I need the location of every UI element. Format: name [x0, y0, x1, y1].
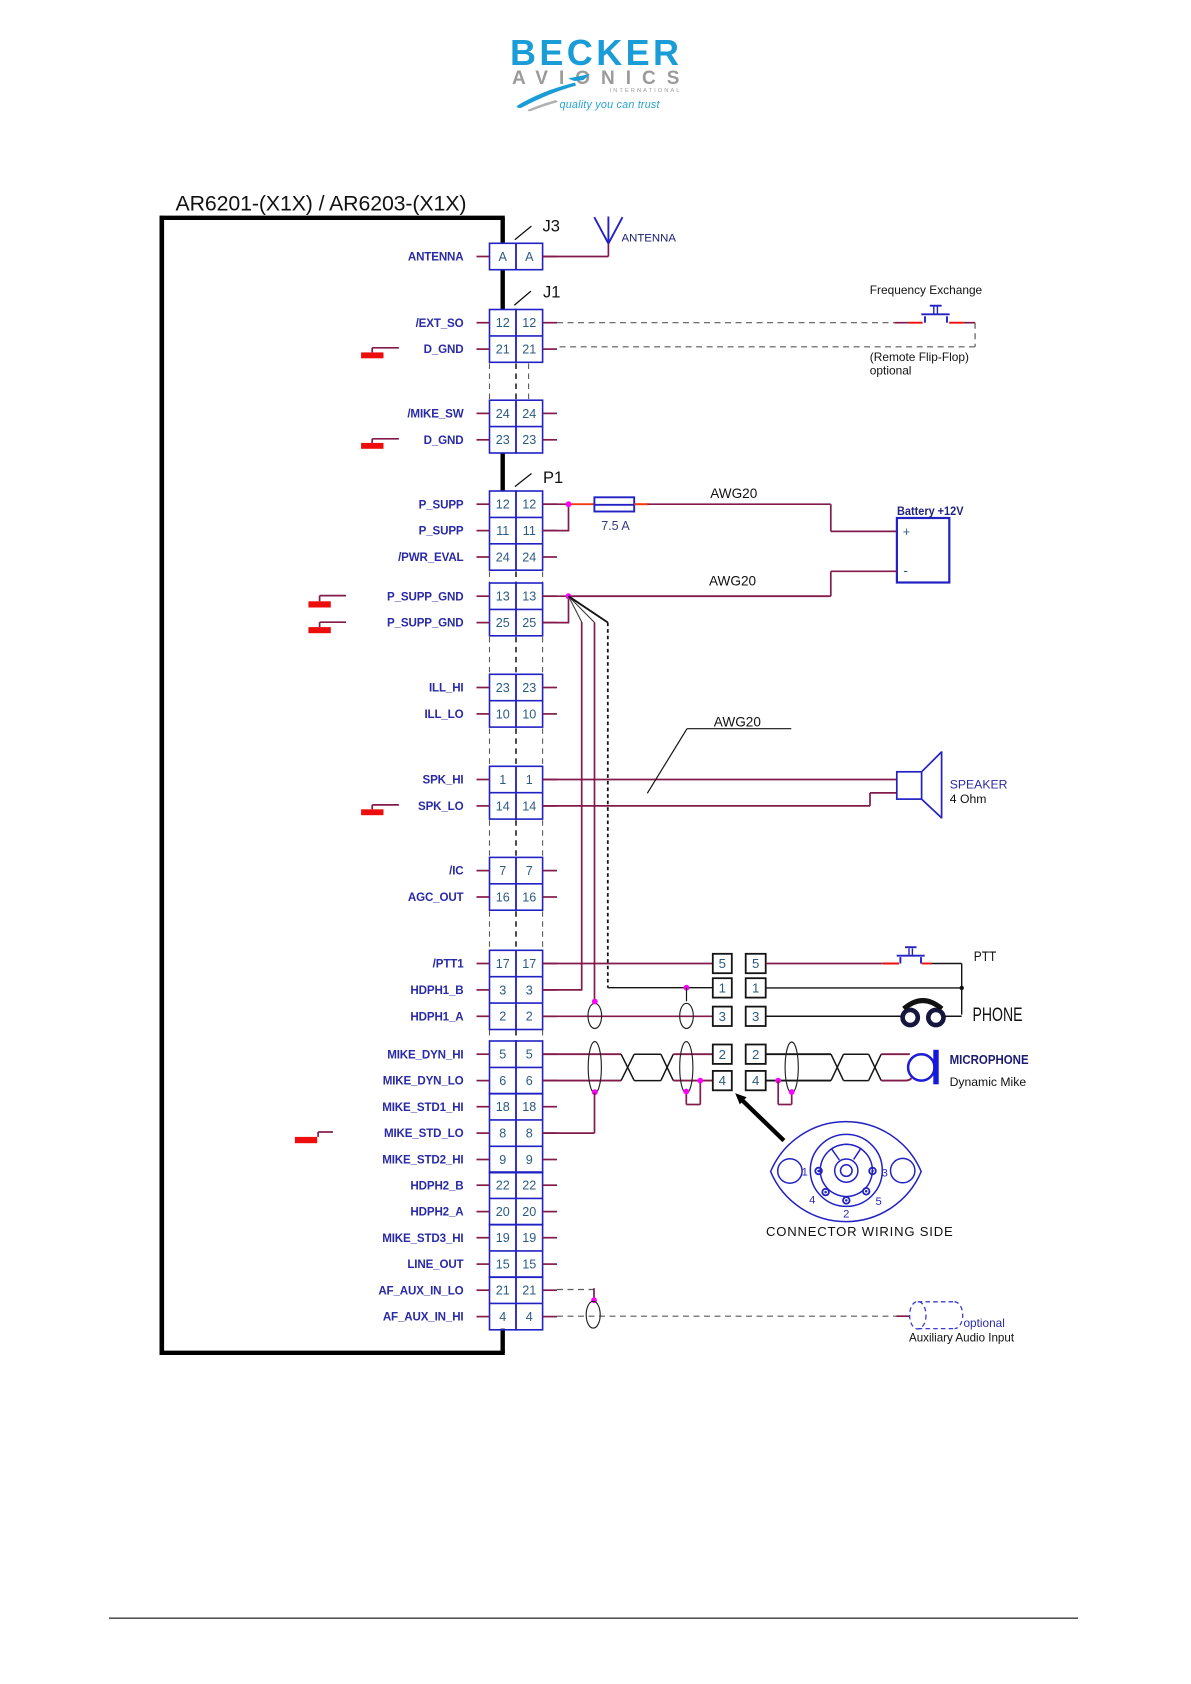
SPEAKER label: [950, 778, 1008, 806]
svg-text:AWG20: AWG20: [709, 573, 757, 588]
svg-text:BECKER: BECKER: [510, 32, 682, 73]
svg-text:6: 6: [499, 1074, 506, 1088]
svg-text:16: 16: [522, 890, 536, 904]
svg-text:AWG20: AWG20: [714, 714, 762, 729]
connector J3 pin box (A): [490, 243, 543, 269]
wire: mike pair low side (black): [766, 1054, 912, 1080]
svg-text:3: 3: [882, 1168, 888, 1180]
wire: mike pair squares to mike (black): [766, 1054, 910, 1080]
svg-text:4: 4: [499, 1310, 506, 1324]
device boundary thick segments at connector column: [501, 218, 505, 1353]
mike cable shield ellipse (mike side): [680, 1042, 693, 1094]
device outline box (thick): [160, 216, 505, 1355]
svg-text:AF_AUX_IN_LO: AF_AUX_IN_LO: [378, 1284, 463, 1297]
inline connector squares 4/4 (MIKE_DYN_LO): [713, 1071, 766, 1090]
svg-text:24: 24: [522, 407, 536, 421]
svg-text:P_SUPP: P_SUPP: [419, 525, 464, 538]
connector P1i pin box (22/20): [490, 1172, 543, 1225]
ground symbol SPK_LO: [361, 805, 399, 815]
svg-text:13: 13: [522, 590, 536, 604]
svg-text:5: 5: [499, 1048, 506, 1062]
wire: square 3 to phone: [766, 1015, 904, 1017]
svg-text:(Remote Flip-Flop): (Remote Flip-Flop): [870, 350, 969, 364]
svg-text:21: 21: [496, 343, 510, 357]
connector P1k pin box (21/4): [490, 1277, 543, 1330]
svg-text:ILL_HI: ILL_HI: [429, 682, 464, 695]
signal label and pin stubs: MIKE_STD_LO (row y 1133): [384, 1127, 557, 1140]
svg-text:MIKE_STD1_HI: MIKE_STD1_HI: [382, 1101, 463, 1114]
Frequency Exchange label: [870, 283, 983, 297]
signal label and pin stubs: ILL_HI (row y 688): [429, 682, 557, 695]
fuse value label 7.5 A: [601, 519, 630, 533]
node: ground wire to HDPH1 shield: [592, 999, 598, 1005]
svg-text:11: 11: [523, 524, 536, 538]
svg-text:9: 9: [526, 1153, 533, 1167]
connector P1j pin box (19/15): [490, 1225, 543, 1278]
svg-text:21: 21: [496, 1284, 510, 1298]
signal label and pin stubs: /MIKE_SW (row y 413): [407, 408, 557, 421]
svg-text:5: 5: [526, 1048, 533, 1062]
signal label and pin stubs: MIKE_STD2_HI (row y 1160): [382, 1154, 557, 1167]
arrow leader to connector drawing: [735, 1093, 784, 1140]
wire: HDPH1_A to square 3: [543, 1015, 713, 1017]
svg-text:25: 25: [496, 616, 510, 630]
connector P1c pin box (23/10): [490, 674, 543, 727]
shield-to-LO hook (right): [778, 1081, 794, 1105]
ground symbol D_GND (J1 pin23): [361, 439, 399, 449]
svg-text:2: 2: [499, 1010, 506, 1024]
svg-text:2: 2: [752, 1047, 759, 1062]
fuse 7.5A: [594, 497, 634, 511]
ground symbol D_GND (J1 pin21): [361, 348, 399, 359]
connector J1a pin box (12/21): [490, 310, 543, 363]
AWG20 label with leader (speaker wires): [647, 714, 791, 793]
svg-text:18: 18: [496, 1100, 510, 1114]
signal label and pin stubs: P_SUPP_GND (row y 596): [387, 590, 557, 603]
svg-text:4: 4: [526, 1310, 533, 1324]
svg-text:2: 2: [719, 1047, 726, 1062]
AWG20 label (battery feed): [710, 486, 758, 501]
svg-text:MIKE_STD3_HI: MIKE_STD3_HI: [382, 1232, 463, 1245]
svg-text:12: 12: [496, 498, 510, 512]
connector J1b pin box (24/23): [490, 400, 543, 453]
svg-text:1: 1: [526, 773, 533, 787]
ground symbol P_SUPP_GND (pin25): [308, 622, 346, 633]
svg-text:MIKE_DYN_HI: MIKE_DYN_HI: [387, 1048, 463, 1061]
wire: P_SUPP pin11 up to junction: [543, 504, 569, 531]
svg-text:/PTT1: /PTT1: [433, 958, 465, 971]
svg-text:SPK_HI: SPK_HI: [423, 774, 464, 787]
svg-text:SPK_LO: SPK_LO: [418, 800, 464, 813]
ground fan-out wire 1 (to HDPH1_B): [569, 596, 582, 990]
shield-to-LO hook (left): [683, 1078, 703, 1105]
connector P1h pin box (18/8/9): [490, 1094, 543, 1173]
wire: square 1 to phone junction: [766, 987, 962, 989]
svg-text:HDPH1_A: HDPH1_A: [410, 1010, 464, 1023]
frequency exchange pushbutton switch: [921, 306, 949, 323]
svg-text:AF_AUX_IN_HI: AF_AUX_IN_HI: [383, 1311, 464, 1324]
connector continuation dashes P1 gap4: [490, 820, 543, 857]
wire: square 5 to PTT switch: [766, 963, 962, 965]
signal label and pin stubs: P_SUPP (row y 504): [419, 498, 557, 511]
DIN connector wiring-side drawing: [771, 1122, 922, 1222]
svg-text:1: 1: [499, 773, 506, 787]
svg-text:Frequency Exchange: Frequency Exchange: [870, 283, 983, 297]
signal label and pin stubs: AGC_OUT (row y 897): [408, 891, 557, 904]
MICROPHONE label: [950, 1052, 1029, 1089]
svg-text:P1: P1: [543, 469, 563, 487]
signal label and pin stubs: P_SUPP (row y 531): [419, 525, 557, 538]
wire: AF_AUX_IN_HI dashed to aux input: [557, 1315, 909, 1317]
wire: /PTT1 to squares: [543, 963, 713, 965]
wire: MIKE_STD_LO up to mike shield: [543, 1092, 595, 1133]
inline connector squares 3/3 (HDPH1_A): [713, 1007, 766, 1026]
svg-text:ANTENNA: ANTENNA: [622, 232, 677, 244]
svg-text:Battery +12V: Battery +12V: [897, 505, 964, 518]
wire: phone to junction leg: [943, 1015, 962, 1017]
svg-text:6: 6: [526, 1074, 533, 1088]
svg-text:J1: J1: [543, 284, 560, 302]
svg-text:Dynamic Mike: Dynamic Mike: [950, 1075, 1027, 1089]
signal label and pin stubs: HDPH1_B (row y 990): [410, 984, 557, 997]
svg-text:14: 14: [496, 799, 510, 813]
ground fan-out wire 2 (to HDPH1_A shield): [569, 596, 595, 1000]
connector continuation dashes P1 gap5: [490, 911, 543, 949]
svg-text:A: A: [499, 250, 508, 264]
svg-text:10: 10: [522, 707, 536, 721]
connector P1 label: [515, 469, 563, 487]
signal label and pin stubs: HDPH1_A (row y 1016): [410, 1010, 557, 1023]
svg-text:22: 22: [522, 1179, 536, 1193]
connector P1d pin box (1/14): [490, 766, 543, 819]
svg-text:MICROPHONE: MICROPHONE: [950, 1052, 1029, 1067]
connector J3 label: [515, 218, 560, 240]
connector pin 4: [809, 1189, 829, 1207]
svg-text:optional: optional: [870, 364, 912, 378]
wire: MIKE_DYN_HI twisted pair (left): [543, 1054, 713, 1080]
signal label and pin stubs: LINE_OUT (row y 1264): [407, 1258, 557, 1271]
svg-text:12: 12: [522, 498, 536, 512]
PTT pushbutton switch: [897, 947, 925, 963]
ground fan-out shield drain (black dashed): [569, 596, 608, 988]
svg-text:24: 24: [522, 550, 536, 564]
ground symbol P_SUPP_GND (pin13): [308, 596, 346, 608]
signal label and pin stubs: ILL_LO (row y 714): [424, 708, 557, 721]
svg-text:15: 15: [522, 1258, 536, 1272]
AWG20 label (ground return): [709, 573, 757, 588]
svg-text:24: 24: [496, 407, 510, 421]
svg-text:HDPH1_B: HDPH1_B: [410, 984, 463, 997]
signal label and pin stubs: D_GND (row y 349): [424, 343, 557, 356]
svg-text:/IC: /IC: [449, 865, 464, 878]
signal label and pin stubs: HDPH2_B (row y 1185): [410, 1179, 557, 1192]
shield drain horizontal to square 1: [608, 987, 713, 989]
connector P1e pin box (7/16): [490, 857, 543, 910]
footer horizontal rule: [109, 1617, 1078, 1619]
svg-text:1: 1: [802, 1166, 808, 1178]
node: drain to shield tick: [684, 985, 690, 1002]
connector pin 3: [869, 1168, 888, 1180]
svg-text:3: 3: [719, 1009, 726, 1024]
wire: SPK_HI to speaker: [543, 779, 897, 781]
HDPH1_A shield ellipse (phone side): [680, 1003, 694, 1028]
svg-text:11: 11: [496, 524, 509, 538]
svg-text:9: 9: [499, 1153, 506, 1167]
signal label and pin stubs: /PTT1 (row y 964): [433, 958, 557, 971]
svg-text:SPEAKER: SPEAKER: [950, 778, 1008, 792]
svg-text:PHONE: PHONE: [973, 1005, 1023, 1026]
connector pin 2: [843, 1197, 850, 1220]
svg-text:5: 5: [719, 956, 726, 971]
svg-text:ANTENNA: ANTENNA: [408, 251, 464, 264]
svg-text:optional: optional: [964, 1316, 1005, 1330]
connector continuation dashes P1 gap6: [490, 1030, 543, 1040]
optional / Auxiliary Audio Input labels: [909, 1316, 1015, 1345]
Becker Avionics logo: [510, 32, 690, 111]
svg-text:MIKE_STD_LO: MIKE_STD_LO: [384, 1127, 464, 1140]
svg-text:A: A: [525, 250, 534, 264]
PHONE label: [973, 1005, 1023, 1026]
svg-text:INTERNATIONAL: INTERNATIONAL: [610, 88, 682, 94]
svg-text:D_GND: D_GND: [424, 434, 464, 447]
svg-text:22: 22: [496, 1179, 510, 1193]
svg-text:8: 8: [526, 1127, 533, 1141]
svg-text:MIKE_DYN_LO: MIKE_DYN_LO: [383, 1075, 464, 1088]
svg-text:21: 21: [522, 343, 536, 357]
signal label and pin stubs: P_SUPP_GND (row y 623): [387, 617, 557, 630]
wire: MIKE_DYN_LO twisted pair (left): [543, 1054, 713, 1080]
wire: SPK_LO to speaker: [543, 793, 897, 806]
svg-text:17: 17: [496, 957, 510, 971]
antenna symbol: [594, 217, 622, 244]
connector J1 label: [514, 284, 560, 306]
svg-text:LINE_OUT: LINE_OUT: [407, 1258, 463, 1271]
svg-text:PTT: PTT: [974, 948, 997, 964]
connector P1b pin box (13/25): [490, 583, 543, 636]
signal label and pin stubs: /IC (row y 871): [449, 865, 557, 878]
svg-text:14: 14: [522, 799, 536, 813]
svg-text:23: 23: [522, 433, 536, 447]
svg-text:/EXT_SO: /EXT_SO: [416, 317, 464, 330]
wire: fuse to battery + (AWG20): [634, 504, 897, 531]
svg-text:19: 19: [496, 1231, 510, 1245]
svg-text:18: 18: [522, 1100, 536, 1114]
svg-text:-: -: [903, 563, 908, 578]
CONNECTOR WIRING SIDE label: [766, 1224, 954, 1239]
connector continuation dashes P1 gap1: [490, 572, 543, 583]
svg-text:4: 4: [809, 1195, 815, 1207]
wire: antenna feed: [543, 243, 609, 257]
svg-text:5: 5: [875, 1196, 881, 1208]
svg-text:AGC_OUT: AGC_OUT: [408, 891, 464, 904]
svg-text:8: 8: [499, 1127, 506, 1141]
connector P1g pin box (5/6): [490, 1041, 543, 1094]
svg-text:quality you can trust: quality you can trust: [560, 99, 661, 111]
svg-text:4 Ohm: 4 Ohm: [950, 792, 987, 806]
svg-text:21: 21: [522, 1284, 536, 1298]
signal label and pin stubs: ANTENNA (row y 256): [408, 251, 557, 264]
connector continuation dashes J1: [490, 364, 529, 400]
signal label and pin stubs: MIKE_DYN_LO (row y 1081): [383, 1075, 557, 1088]
junction node P_SUPP_GND: [566, 593, 572, 599]
svg-text:13: 13: [496, 590, 510, 604]
wire: AF_AUX_IN_LO dashed to shield: [557, 1288, 597, 1303]
signal label and pin stubs: D_GND (row y 440): [424, 434, 557, 447]
svg-text:MIKE_STD2_HI: MIKE_STD2_HI: [382, 1154, 463, 1167]
ground symbol MIKE_STD_LO: [295, 1132, 333, 1143]
svg-text:4: 4: [719, 1073, 726, 1088]
mike cable shield ellipse (connector side): [588, 1042, 601, 1094]
svg-text:25: 25: [522, 616, 536, 630]
wire: /EXT_SO dashed to frequency-exchange switch: [557, 322, 975, 324]
wire: P_SUPP_GND pin13 to battery - (AWG20): [543, 571, 897, 596]
svg-text:AVIONICS: AVIONICS: [512, 68, 690, 89]
connector P1f pin box (17/3/2): [490, 950, 543, 1029]
svg-text:AR6201-(X1X) / AR6203-(X1X): AR6201-(X1X) / AR6203-(X1X): [176, 191, 467, 215]
svg-text:/MIKE_SW: /MIKE_SW: [407, 408, 463, 421]
svg-text:12: 12: [522, 316, 536, 330]
svg-text:23: 23: [496, 433, 510, 447]
PTT label: [974, 948, 997, 964]
microphone symbol: [908, 1050, 939, 1085]
svg-text:16: 16: [496, 890, 510, 904]
svg-text:15: 15: [496, 1258, 510, 1272]
signal label and pin stubs: HDPH2_A (row y 1212): [410, 1206, 557, 1219]
svg-text:23: 23: [522, 681, 536, 695]
svg-text:ILL_LO: ILL_LO: [424, 708, 463, 721]
svg-text:1: 1: [752, 981, 759, 996]
signal label and pin stubs: AF_AUX_IN_LO (row y 1290): [378, 1284, 557, 1297]
svg-text:17: 17: [522, 957, 536, 971]
wire: PTT down-right leg: [961, 964, 963, 1015]
svg-text:1: 1: [719, 981, 726, 996]
wire: P_SUPP pin12 to fuse: [543, 503, 594, 505]
battery +12V box: [897, 505, 964, 583]
svg-text:19: 19: [522, 1231, 536, 1245]
signal label and pin stubs: SPK_HI (row y 780): [423, 774, 557, 787]
connector pin 1: [802, 1166, 822, 1178]
speaker symbol: [897, 751, 942, 818]
svg-text:AWG20: AWG20: [710, 486, 758, 501]
svg-text:CONNECTOR WIRING SIDE: CONNECTOR WIRING SIDE: [766, 1224, 954, 1239]
svg-text:7: 7: [499, 864, 506, 878]
ANTENNA label: [622, 232, 677, 244]
signal label and pin stubs: MIKE_STD3_HI (row y 1238): [382, 1232, 557, 1245]
svg-text:23: 23: [496, 681, 510, 695]
svg-text:24: 24: [496, 550, 510, 564]
connector continuation dashes P1 gap3: [490, 728, 543, 765]
svg-text:5: 5: [752, 956, 759, 971]
connector pin 5: [863, 1188, 882, 1208]
node: LO dot before square 4: [775, 1078, 781, 1084]
svg-text:3: 3: [499, 983, 506, 997]
svg-text:10: 10: [496, 707, 510, 721]
svg-text:20: 20: [496, 1205, 510, 1219]
mike shield ellipse (right): [785, 1042, 798, 1093]
phone headset symbol: [903, 1001, 944, 1026]
signal label and pin stubs: MIKE_STD1_HI (row y 1107): [382, 1101, 557, 1114]
svg-text:J3: J3: [543, 218, 560, 236]
wire: switch return dashed to D_GND pin 21: [557, 323, 975, 347]
connector P1a pin box (12/11/24): [490, 491, 543, 570]
svg-text:4: 4: [752, 1073, 759, 1088]
AF_AUX shield ellipse: [586, 1301, 600, 1328]
inline connector squares 5/5 (PTT): [713, 954, 766, 973]
signal label and pin stubs: /EXT_SO (row y 323): [416, 317, 557, 330]
svg-text:HDPH2_B: HDPH2_B: [410, 1179, 463, 1192]
svg-text:20: 20: [522, 1205, 536, 1219]
connector continuation dashes P1 gap2: [490, 637, 543, 674]
svg-text:3: 3: [752, 1009, 759, 1024]
signal label and pin stubs: SPK_LO (row y 806): [418, 800, 557, 813]
svg-text:7: 7: [526, 864, 533, 878]
inline connector squares 1/1 (HDPH1_B): [713, 978, 766, 997]
signal label and pin stubs: MIKE_DYN_HI (row y 1054): [387, 1048, 557, 1061]
signal label and pin stubs: /PWR_EVAL (row y 557): [398, 551, 557, 564]
node: shield bottom (connector side): [592, 1089, 598, 1095]
optional auxiliary audio input connector (dashed): [910, 1301, 963, 1329]
Remote Flip-Flop optional label: [870, 350, 969, 378]
svg-text:+: +: [903, 525, 910, 539]
svg-text:D_GND: D_GND: [424, 343, 464, 356]
signal label and pin stubs: AF_AUX_IN_HI (row y 1317): [383, 1311, 557, 1324]
title AR6201/AR6203: [176, 191, 467, 215]
svg-text:7.5 A: 7.5 A: [601, 519, 630, 533]
junction node P_SUPP: [566, 501, 572, 507]
inline connector squares 2/2 (MIKE_DYN_HI): [713, 1045, 766, 1064]
wire: HDPH1_B to ground fan: [543, 989, 583, 991]
svg-text:P_SUPP_GND: P_SUPP_GND: [387, 590, 463, 603]
svg-text:/PWR_EVAL: /PWR_EVAL: [398, 551, 463, 564]
svg-text:P_SUPP_GND: P_SUPP_GND: [387, 617, 463, 630]
svg-text:Auxiliary Audio Input: Auxiliary Audio Input: [909, 1331, 1015, 1344]
wire: P_SUPP_GND pin25 up to junction: [543, 596, 569, 623]
svg-text:P_SUPP: P_SUPP: [419, 498, 464, 511]
svg-text:HDPH2_A: HDPH2_A: [410, 1206, 464, 1219]
HDPH1_A shield ellipse (connector side): [588, 1003, 602, 1028]
svg-text:2: 2: [843, 1208, 849, 1220]
junction node (black) PTT/PHONE: [960, 986, 964, 990]
svg-text:2: 2: [526, 1010, 533, 1024]
svg-text:12: 12: [496, 316, 510, 330]
svg-text:3: 3: [526, 983, 533, 997]
